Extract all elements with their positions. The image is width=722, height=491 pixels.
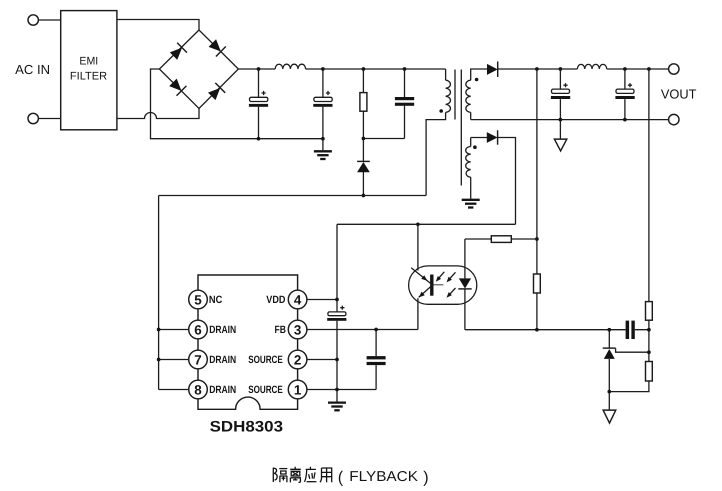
bridge diode D4 (bottom-right edge) [207,83,225,101]
svg-text:FILTER: FILTER [70,71,107,83]
ground triangle feedback [603,410,616,423]
node FB-bias resistor [535,328,539,332]
caption hanzi li (离) [290,467,301,483]
node diode-sense line [535,67,539,71]
transformer T1 primary winding [445,69,447,80]
wire aux diode to VDD line [498,138,516,225]
svg-text:DRAIN: DRAIN [209,384,236,396]
capacitor C1 bulk electrolytic [258,69,260,139]
resistor R6 divider lower [646,362,653,382]
AC input terminal top [28,15,38,25]
node C2-DC minus [321,137,325,141]
node rail-divider [647,67,651,71]
svg-text:8: 8 [194,382,202,397]
wire stub pin6 [159,329,189,331]
svg-text:FLYBACK: FLYBACK [349,469,418,485]
pin 3 circle [288,320,307,339]
ground earth auxiliary [462,200,480,208]
node snubber R-C-diode [362,137,366,141]
inductor L2 output filter [577,64,606,69]
svg-text:VOUT: VOUT [661,86,697,101]
diode D6 output rectifier [487,64,498,75]
wire EMI to bridge bottom vertex with hop over DC- line [117,108,199,118]
TL431 shunt regulator U4 [608,330,610,410]
resistor Rsn snubber [362,69,364,139]
node rail-Csnubber [403,67,407,71]
ground earth primary DC minus [322,139,324,151]
optocoupler LED [464,239,466,278]
wire VDD vertical [336,224,338,401]
node rail-CB [623,67,627,71]
pin 5 circle [189,290,208,309]
node clamp-drain line [362,194,366,198]
resistor R4 opto bias [534,274,541,293]
ground triangle output [559,120,561,140]
pin 6 circle [189,320,208,339]
wire T2 to EMI filter [38,118,60,120]
node VDD line-pin1 [335,388,339,392]
node TL431 anode-R6 [607,390,611,394]
svg-text:AC IN: AC IN [15,62,50,77]
IC U1 SDH8303 body [198,275,298,409]
bridge rectifier diamond [159,30,238,108]
svg-text:7: 7 [194,352,201,367]
pin 2 circle [288,350,307,369]
svg-text:SDH8303: SDH8303 [210,419,283,436]
bridge diode D3 (left-bottom edge) [168,77,186,95]
node divider-ref [647,350,651,354]
wire pin3 FB [307,329,418,331]
node rail-Rsnubber [362,67,366,71]
svg-text:SOURCE: SOURCE [248,354,283,366]
VOUT terminal top [669,64,679,74]
wire pin2 SOURCE [307,359,337,361]
wire output rail [537,68,669,70]
node opto collector [416,222,420,226]
node VDD pin4 [335,298,339,302]
svg-text:DRAIN: DRAIN [209,354,236,366]
ground earth IC source [328,403,346,411]
wire FB net right segment [465,329,649,331]
svg-text:): ) [423,469,428,487]
pin 7 circle [189,350,208,369]
caption hanzi ying (应) [305,467,317,482]
svg-text:DRAIN: DRAIN [209,324,236,336]
transformer auxiliary winding [471,138,488,147]
wire VOUT sense vertical [536,69,538,330]
optocoupler light arrow 1 [437,272,444,280]
capacitor CB output electrolytic [624,69,626,120]
diode D7 auxiliary rectifier [487,132,498,143]
VOUT terminal bottom [669,114,679,124]
wire EMI to bridge top vertex [117,20,199,31]
node bus pin7 [157,358,161,362]
bridge diode D1 (left-top edge) [169,43,187,61]
svg-text:2: 2 [294,352,301,367]
capacitor C5 compensation [626,321,630,339]
svg-text:5: 5 [194,292,202,307]
wire T1 to EMI filter [38,19,60,21]
node rail-CA [559,67,563,71]
capacitor CA output electrolytic [559,69,561,120]
transformer auxiliary polarity dot [473,145,477,149]
capacitor Csn snubber [404,69,406,139]
wire drain line [159,195,427,197]
svg-text:3: 3 [294,322,301,337]
wire snubber bottom node [363,138,404,140]
node CA-bottom rail [559,118,563,122]
diode D5 clamp [362,139,364,196]
caption hanzi ge (隔) [273,468,287,483]
node rail-C1 [257,67,261,71]
svg-text:FB: FB [275,324,287,336]
capacitor C3 VDD electrolytic [328,312,346,316]
wire drain bus left [158,196,160,390]
svg-text:EMI: EMI [79,55,98,67]
wire DC plus rail [238,68,445,70]
node FB-TL431 [607,328,611,332]
wire stub pin7 [159,359,189,361]
svg-text:VDD: VDD [266,294,285,306]
transformer primary polarity dot [439,109,443,113]
wire bridge left vertex to DC minus rail [151,69,323,139]
transformer core [455,70,461,186]
transformer secondary polarity dot [475,78,479,82]
wire stub pin8 [159,389,189,391]
wire output bottom rail [471,119,669,121]
svg-text:6: 6 [194,322,201,337]
wire pin4 VDD [307,299,337,301]
wire opto collector to VDD line [337,223,516,225]
svg-text:1: 1 [294,382,302,397]
optocoupler U3 body [409,266,477,304]
caption hanzi yong (用) [320,468,332,482]
AC input terminal bottom [28,113,38,123]
wire pin1 SOURCE [307,389,376,391]
EMI filter box U2 [61,11,117,130]
svg-text:(: ( [338,469,344,487]
node VDD line-pin2 [335,358,339,362]
wire divider vertical [609,69,649,392]
optocoupler light arrow 2 [448,272,456,280]
inductor L1 input filter [275,64,305,69]
pin 1 circle [288,380,307,399]
pin 8 circle [189,380,208,399]
node bus pin6 [157,328,161,332]
node divider-comp cap [647,328,651,332]
pin 4 circle [288,290,307,309]
optocoupler light arrow 3 [448,288,456,296]
node sense-opto resistor [535,237,539,241]
optocoupler phototransistor [417,224,419,270]
node C1-DC minus [257,137,261,141]
bridge diode D2 (top-right edge) [207,38,225,56]
resistor R5 divider upper [646,302,653,321]
node rail-C2 [321,67,325,71]
capacitor C2 bulk electrolytic [322,69,324,139]
wire TL431 ref [616,348,649,352]
svg-text:NC: NC [209,294,223,306]
svg-text:4: 4 [294,292,302,307]
node CB-bottom rail [623,118,627,122]
capacitor C4 FB filter [375,330,377,390]
svg-text:SOURCE: SOURCE [248,384,283,396]
node FB-C4 [374,328,378,332]
resistor R3 opto series [465,238,537,240]
transformer secondary winding [471,69,488,80]
